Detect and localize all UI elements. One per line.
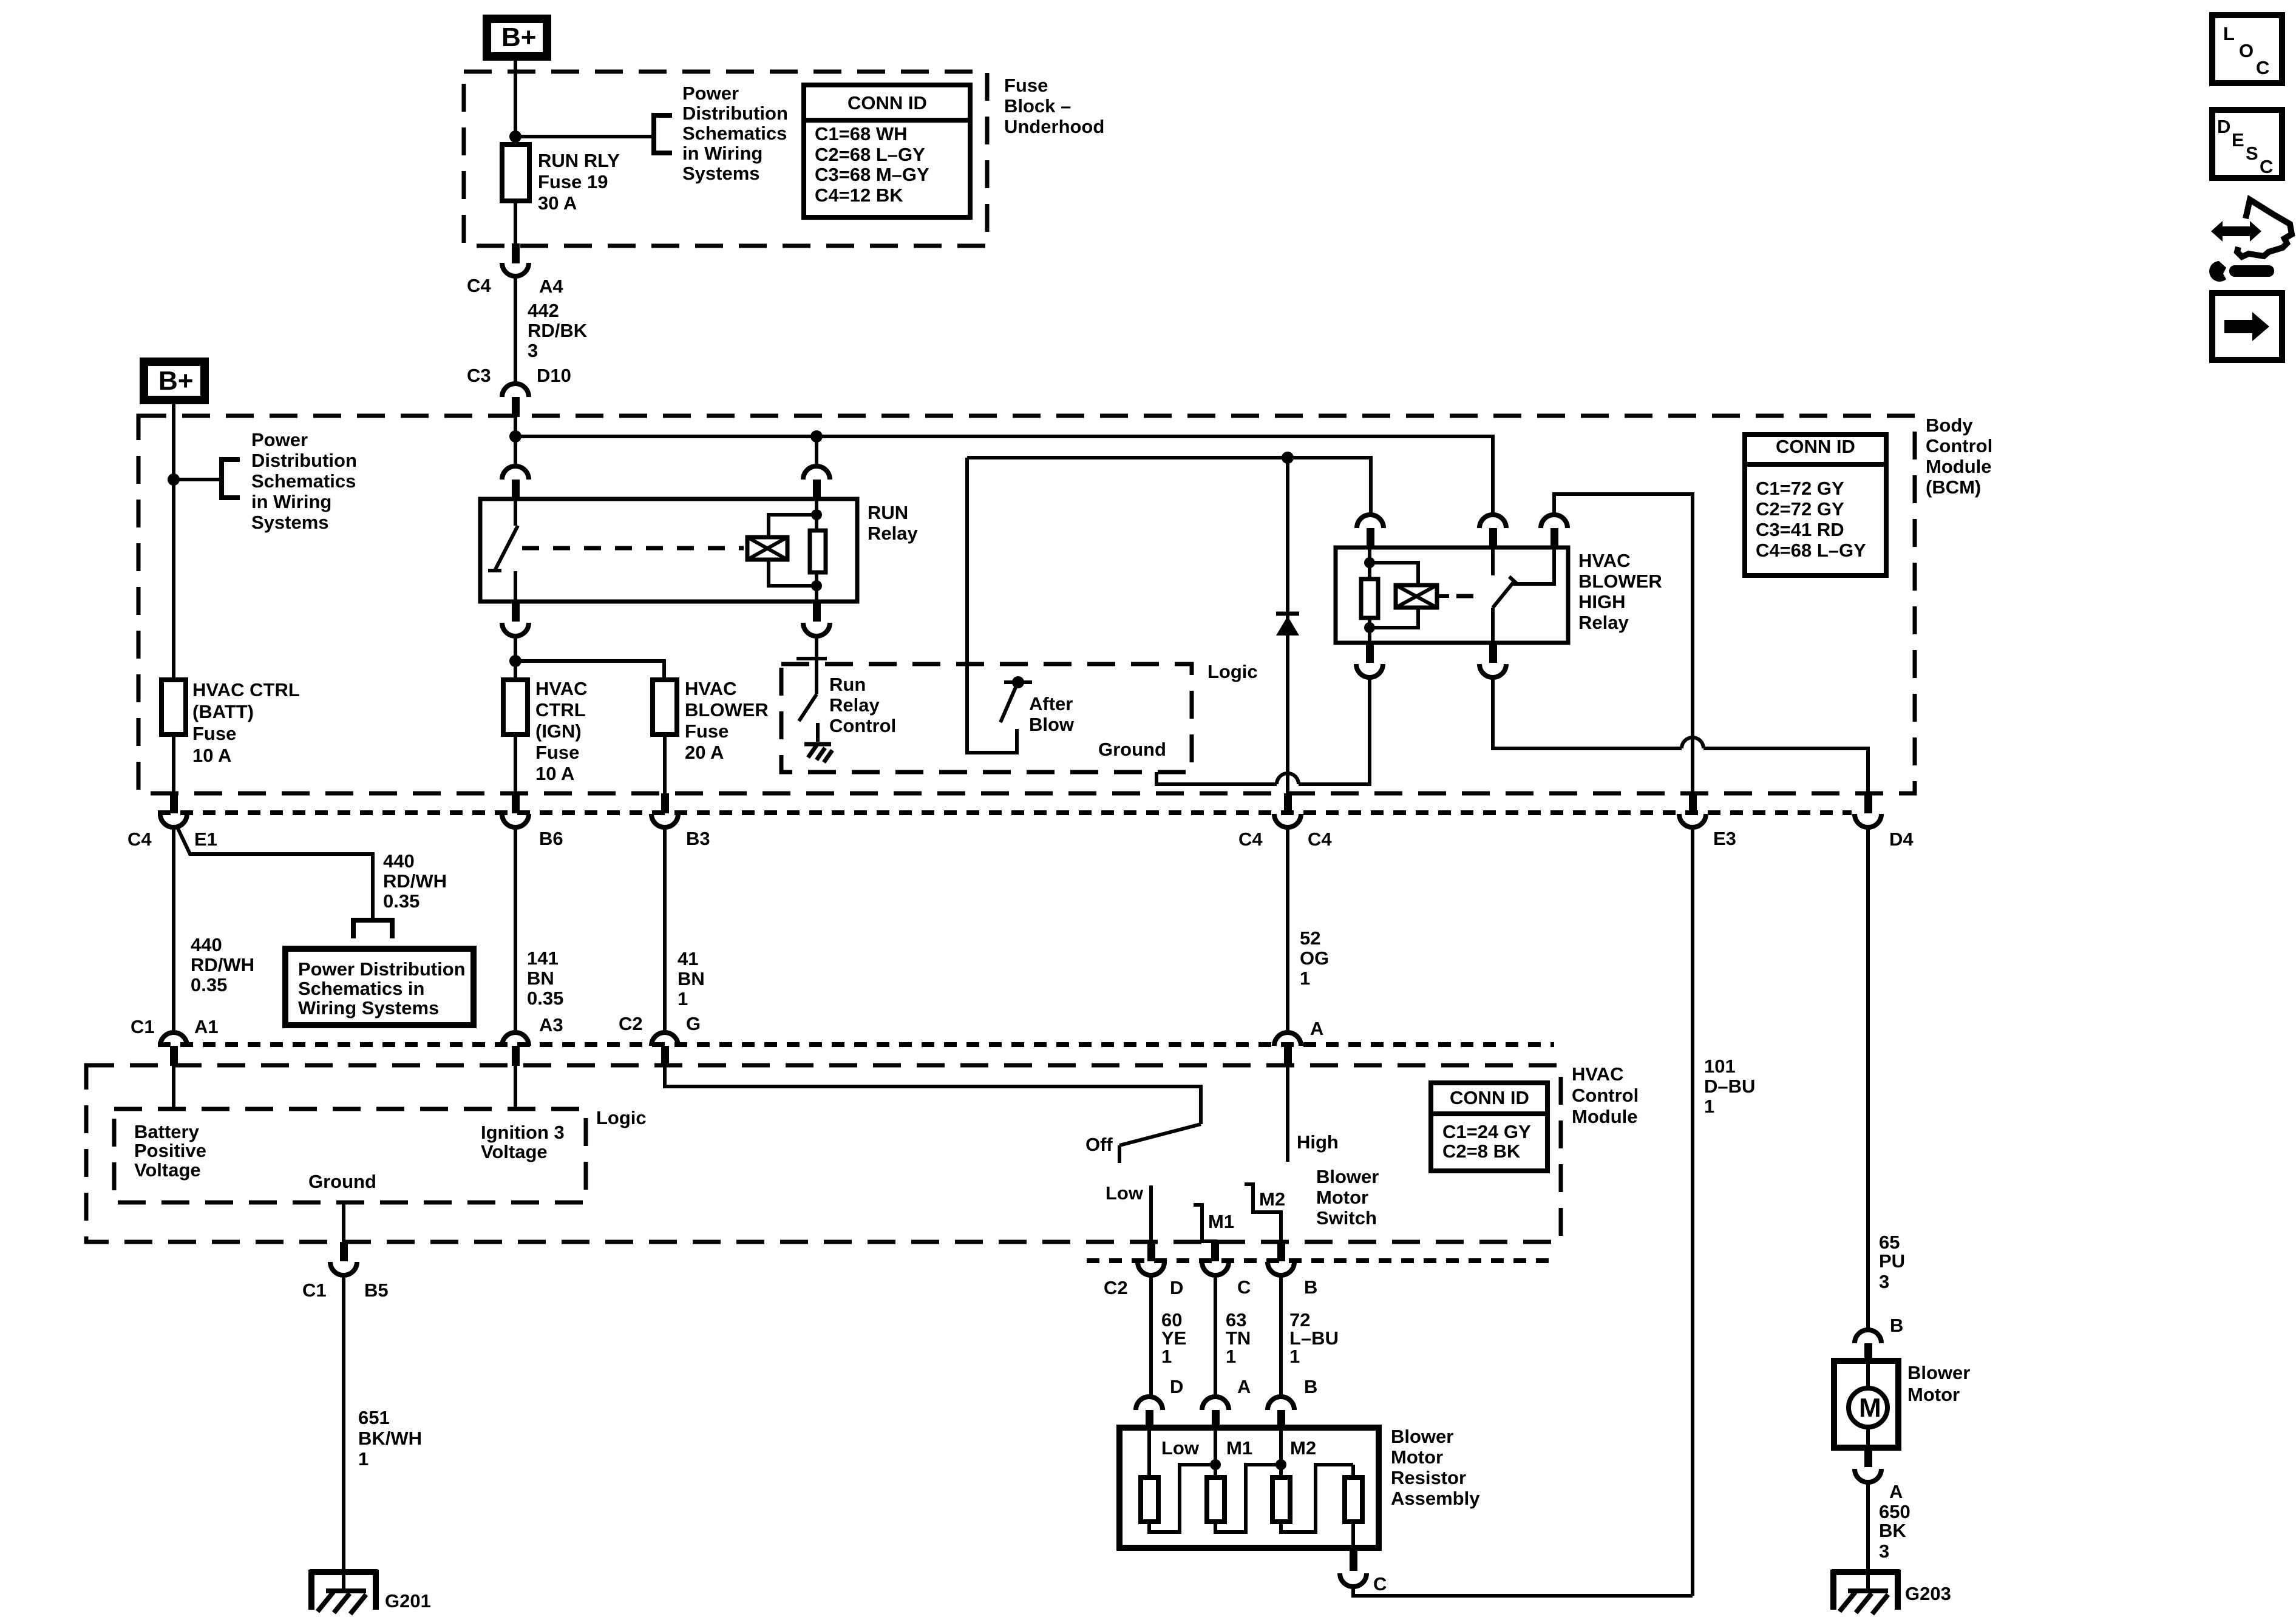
svg-text:Ignition 3: Ignition 3 [481,1122,565,1143]
blower motor M1 [1834,1361,1898,1448]
resistor R1 low [1141,1428,1215,1532]
svg-text:in Wiring: in Wiring [682,143,763,164]
svg-text:Power Distribution: Power Distribution [298,958,466,980]
svg-text:Voltage: Voltage [134,1159,201,1181]
wire coil bus [967,458,1371,515]
connector C2/D [1138,1242,1164,1275]
svg-text:Switch: Switch [1316,1207,1377,1229]
connector B resistor assembly [1268,1397,1294,1429]
svg-text:1: 1 [1300,968,1310,989]
connector HVAC blower high relay common output [1479,643,1506,677]
connector HVAC blower high relay coil input [1357,515,1384,548]
svg-text:Fuse: Fuse [192,723,236,744]
node diode junction [1282,452,1294,464]
connector B blower motor [1855,1330,1881,1363]
svg-text:C1: C1 [302,1280,327,1301]
svg-text:C2: C2 [619,1013,643,1034]
svg-text:Assembly: Assembly [1391,1488,1480,1509]
ground G203 [1832,1570,1900,1614]
svg-text:B: B [1890,1315,1903,1336]
run relay control switch [796,659,827,742]
connector run relay switch input [502,466,529,500]
svg-text:C1=24 GY: C1=24 GY [1442,1121,1531,1142]
svg-text:Underhood: Underhood [1004,116,1104,137]
svg-text:Voltage: Voltage [481,1141,548,1162]
svg-text:HVAC CTRL: HVAC CTRL [192,679,300,700]
svg-text:Schematics: Schematics [251,470,356,492]
svg-text:M2: M2 [1259,1188,1285,1210]
svg-text:Fuse: Fuse [685,720,729,742]
svg-text:in Wiring: in Wiring [251,491,331,512]
after blow switch [1000,676,1032,722]
svg-text:C4: C4 [127,829,152,850]
svg-text:Control: Control [1572,1085,1639,1106]
svg-text:Motor: Motor [1907,1384,1960,1405]
connector HVAC blower high relay coil output [1356,643,1383,677]
BCM logic dashed box [781,664,1192,772]
svg-text:Run: Run [829,674,866,695]
svg-text:B: B [1304,1276,1317,1298]
connector D resistor assembly [1136,1397,1163,1429]
wire run relay control [815,636,818,694]
svg-text:Body: Body [1926,415,1973,436]
wire 60 YE [1149,1275,1153,1398]
svg-text:C1=72 GY: C1=72 GY [1756,478,1844,499]
wire to power distribution reference bracket [515,135,654,138]
svg-text:Distribution: Distribution [682,103,788,124]
svg-text:BK/WH: BK/WH [358,1428,422,1449]
svg-text:65: 65 [1879,1232,1900,1253]
fuse HVAC CTRL (IGN) 10A [503,680,528,793]
wire 650 BK [1866,1481,1870,1592]
svg-text:Module: Module [1572,1106,1638,1127]
svg-text:Fuse 19: Fuse 19 [538,171,608,192]
wire 101 D-BU [1691,827,1694,1596]
svg-text:B+: B+ [158,366,193,396]
svg-text:C: C [1373,1573,1387,1595]
svg-text:A: A [1237,1376,1251,1397]
wire down to run relay coil connector [815,436,818,466]
svg-text:D: D [2217,116,2230,137]
connector C4/C4 [1274,793,1301,827]
svg-text:A4: A4 [539,276,563,297]
svg-text:650: 650 [1879,1501,1911,1522]
svg-text:442: 442 [528,300,559,321]
connector B3 [651,793,678,827]
svg-text:S: S [2246,143,2258,164]
svg-text:C4: C4 [1308,829,1332,850]
svg-text:D–BU: D–BU [1704,1076,1755,1097]
svg-text:OG: OG [1300,947,1329,969]
svg-text:B: B [1304,1376,1317,1397]
svg-text:Schematics in: Schematics in [298,978,424,999]
low lead [1149,1185,1153,1242]
svg-text:Distribution: Distribution [251,450,357,471]
svg-text:Schematics: Schematics [682,123,787,144]
connector HVAC blower high relay NO output [1541,515,1567,548]
svg-text:Low: Low [1106,1182,1144,1204]
svg-text:E1: E1 [194,829,217,850]
svg-text:HVAC: HVAC [1578,550,1631,571]
wire relay common to D4 [1493,677,1868,793]
svg-text:101: 101 [1704,1056,1736,1077]
svg-text:High: High [1297,1131,1339,1153]
svg-text:BN: BN [527,968,554,989]
svg-text:C2: C2 [1104,1277,1128,1298]
svg-text:C3=68 M–GY: C3=68 M–GY [815,164,929,185]
svg-text:L: L [2223,23,2235,44]
svg-text:(BCM): (BCM) [1926,476,1981,498]
svg-text:C: C [2256,57,2269,78]
svg-text:30 A: 30 A [538,192,577,214]
CONN ID table (fuse block) [804,85,970,217]
svg-text:M: M [1859,1393,1881,1423]
svg-text:After: After [1029,693,1073,714]
svg-text:651: 651 [358,1407,390,1428]
svg-text:RD/BK: RD/BK [528,320,588,341]
wire off feed inside module [665,1065,1201,1124]
svg-text:HVAC: HVAC [685,678,737,699]
svg-text:B+: B+ [501,22,536,52]
svg-text:Fuse: Fuse [535,742,579,763]
M2 lead [1245,1184,1281,1242]
svg-text:41: 41 [678,948,698,969]
svg-text:E3: E3 [1713,828,1736,849]
logic dashed box HVAC control module [114,1109,586,1202]
wire ground from module [342,1202,345,1242]
wire run relay output to fuses [509,636,664,680]
svg-text:RD/WH: RD/WH [383,870,447,892]
fuse F19 RUN RLY 30A [502,144,529,246]
Body Control Module dashed box [138,416,1915,793]
wire 141 BN ignition feed [514,827,517,1032]
svg-text:3: 3 [528,340,538,361]
off switch blade [1119,1124,1201,1163]
svg-text:RD/WH: RD/WH [191,954,254,975]
svg-text:1: 1 [1289,1346,1300,1367]
connector C3/D10 BCM input [502,384,529,417]
wire 52 OG high feed [1286,827,1289,1032]
svg-text:Off: Off [1085,1134,1113,1155]
svg-text:Resistor: Resistor [1391,1467,1466,1488]
ground rake run relay control [804,744,832,762]
node BCM feed split [509,430,521,442]
connector A [1274,1032,1301,1066]
diode D1 [1276,458,1299,793]
wire relay NO to E3 [1554,494,1693,793]
connector run relay coil output [803,602,830,636]
wire 72 L-BU [1279,1275,1283,1398]
node on BCM B+ feed [168,473,180,486]
connector HVAC blower high relay switch input [1479,515,1506,548]
HVAC control module dashed box [86,1065,1561,1242]
svg-text:B5: B5 [364,1280,389,1301]
svg-text:C4=12 BK: C4=12 BK [815,185,903,206]
connector A3 [502,1032,529,1066]
svg-text:D10: D10 [537,365,571,386]
svg-text:141: 141 [527,947,559,969]
HVAC blower high relay switch [1493,547,1554,643]
svg-text:D: D [1170,1376,1183,1397]
svg-text:Logic: Logic [1207,661,1258,682]
connector run relay switch output [502,602,529,636]
svg-text:Blow: Blow [1029,714,1075,735]
svg-text:C1: C1 [131,1016,155,1037]
svg-text:0.35: 0.35 [527,988,563,1009]
wire 63 TN [1214,1275,1217,1398]
svg-text:1: 1 [1704,1096,1714,1117]
resistor R2 M1 [1207,1428,1281,1532]
B+ terminal (fuse block feed) [483,15,551,61]
svg-text:1: 1 [678,988,688,1009]
connector B6 [502,793,529,827]
svg-text:PU: PU [1879,1250,1905,1272]
boxed label Power Distribution Schematics in Wiring Systems [285,949,474,1025]
wire 65 PU blower feed [1866,827,1870,1330]
svg-text:RUN RLY: RUN RLY [538,150,620,171]
svg-text:D: D [1170,1277,1183,1298]
wire 440 RD/WH E1 branch [178,829,373,918]
svg-text:G: G [686,1013,701,1034]
svg-text:CONN ID: CONN ID [1450,1087,1529,1108]
wire 440 RD/WH battery feed [172,827,175,1032]
svg-text:10 A: 10 A [192,745,231,766]
connector C resistor output [1340,1548,1367,1587]
svg-text:Power: Power [682,83,739,104]
connector C4/E1 [160,793,187,827]
connector row HVAC control module dotted line [158,1042,1554,1047]
svg-text:440: 440 [191,934,222,955]
svg-text:C4: C4 [467,275,491,296]
svg-text:Ground: Ground [1098,739,1166,760]
svg-text:C4=68 L–GY: C4=68 L–GY [1756,540,1866,561]
svg-text:C2=72 GY: C2=72 GY [1756,498,1844,520]
svg-text:B3: B3 [686,828,710,849]
svg-text:A: A [1889,1481,1903,1502]
svg-text:Wiring Systems: Wiring Systems [298,997,439,1019]
connector A resistor assembly [1202,1397,1229,1429]
svg-text:3: 3 [1879,1271,1889,1292]
connector E3 [1679,793,1706,827]
svg-text:(IGN): (IGN) [535,720,582,742]
svg-text:B6: B6 [539,828,563,849]
svg-text:C: C [1237,1276,1251,1298]
wire B+ to RUN RLY fuse [514,61,517,144]
connector C1/A1 [160,1032,187,1066]
svg-text:HVAC: HVAC [1572,1063,1624,1085]
svg-text:Systems: Systems [251,512,329,533]
wire 442 RD/BK [514,276,517,384]
ground G201 [310,1570,378,1614]
svg-text:Motor: Motor [1391,1446,1443,1468]
CONN ID table (BCM) [1745,435,1886,575]
relay K1 RUN Relay box [480,499,857,602]
svg-text:C: C [2260,156,2273,177]
icon DESC box [2212,110,2282,178]
run relay switch contact [488,499,518,602]
svg-text:Power: Power [251,429,308,450]
wire battery positive into module [172,1065,175,1109]
svg-text:440: 440 [383,850,415,872]
connector C1/B5 [330,1242,357,1275]
svg-text:M2: M2 [1290,1437,1316,1459]
icon diagnostic arrows and wrench [2209,200,2292,282]
svg-text:Relay: Relay [868,523,918,544]
wire high lead [1286,1065,1289,1162]
svg-text:C3=41 RD: C3=41 RD [1756,519,1844,540]
connector row BCM outputs dotted line [158,810,1852,815]
svg-text:O: O [2239,40,2254,61]
svg-text:Blower: Blower [1391,1426,1453,1447]
svg-text:Motor: Motor [1316,1187,1368,1208]
run relay coil [747,499,826,602]
connector C2/G [651,1032,678,1066]
svg-text:M1: M1 [1208,1211,1234,1232]
node run relay coil feed [810,430,823,442]
svg-text:G203: G203 [1905,1583,1951,1604]
svg-text:A: A [1310,1018,1323,1039]
svg-text:Relay: Relay [829,694,880,716]
svg-text:HVAC: HVAC [535,678,588,699]
svg-text:CONN ID: CONN ID [847,92,927,114]
fuse HVAC BLOWER 20A [653,680,677,793]
svg-text:C2=8 BK: C2=8 BK [1442,1141,1521,1162]
bracket power distribution reference (BCM) [222,459,240,498]
svg-text:A1: A1 [194,1016,219,1037]
svg-text:0.35: 0.35 [191,974,227,995]
svg-text:1: 1 [1226,1346,1236,1367]
resistor R4 output [1345,1465,1362,1548]
wire resistor C to E3 column [1353,1587,1693,1596]
svg-text:Control: Control [829,715,896,736]
wire BCM feed bus to HVAC blower high relay [515,436,1493,515]
svg-text:C1=68 WH: C1=68 WH [815,123,907,144]
svg-text:BLOWER: BLOWER [685,699,769,720]
connector B [1268,1242,1294,1275]
M1 lead [1194,1205,1215,1242]
wire 41 BN off feed [663,827,667,1032]
svg-text:Module: Module [1926,456,1992,477]
fuse block underhood dashed box [464,72,987,246]
wire after blow feed [967,458,1017,753]
svg-text:HIGH: HIGH [1578,591,1626,612]
wire D10 into BCM [514,416,517,466]
svg-text:Relay: Relay [1578,612,1629,633]
wire ignition 3 into module [514,1065,517,1109]
svg-text:G201: G201 [385,1590,431,1612]
connector row blower switch outputs dotted line [1087,1258,1557,1263]
svg-text:3: 3 [1879,1541,1889,1562]
svg-text:20 A: 20 A [685,742,724,763]
svg-text:Ground: Ground [308,1171,376,1192]
svg-text:Systems: Systems [682,163,760,184]
B+ terminal (BCM feed) [140,358,209,404]
bracket to power distribution box [353,920,392,938]
svg-text:Battery: Battery [134,1121,200,1142]
icon LOC box [2212,15,2282,83]
resistor R3 M2 [1272,1428,1353,1532]
svg-text:0.35: 0.35 [383,890,419,912]
svg-text:Logic: Logic [596,1107,647,1128]
svg-text:RUN: RUN [868,502,908,523]
svg-text:CONN ID: CONN ID [1776,436,1855,457]
icon forward arrow box [2212,293,2282,360]
svg-text:Blower: Blower [1907,1362,1970,1383]
svg-text:D4: D4 [1889,829,1914,850]
svg-text:A3: A3 [539,1014,563,1036]
connector C [1202,1242,1229,1275]
HVAC blower high relay coil [1361,547,1437,643]
svg-text:Control: Control [1926,435,1992,456]
svg-text:C2=68 L–GY: C2=68 L–GY [815,144,925,165]
svg-text:CTRL: CTRL [535,699,586,720]
wire to power distribution bracket (BCM) [174,478,222,481]
svg-text:C3: C3 [467,365,491,386]
svg-text:1: 1 [358,1448,369,1470]
CONN ID table (HVAC control module) [1431,1083,1547,1171]
svg-text:Positive: Positive [134,1140,206,1161]
svg-text:52: 52 [1300,927,1320,949]
connector D4 [1855,793,1881,827]
run relay actuation dashed link [522,546,744,551]
node on B+ feed [509,131,521,143]
svg-text:M1: M1 [1226,1437,1252,1459]
connector C4/A4 fuse block output [502,243,529,276]
wire 651 BK/WH [342,1275,345,1592]
ground link from logic box [1156,677,1370,784]
fuse HVAC CTRL (BATT) 10A [161,680,186,793]
wire B+ to HVAC CTRL BATT fuse [172,404,175,680]
relay K2 HVAC BLOWER HIGH box [1336,547,1568,643]
svg-text:Blower: Blower [1316,1166,1379,1187]
svg-text:Low: Low [1161,1437,1200,1459]
svg-text:Fuse: Fuse [1004,75,1048,96]
svg-text:10 A: 10 A [535,763,574,784]
svg-text:BN: BN [678,968,705,989]
bracket power distribution reference [654,115,672,153]
connector A blower motor [1855,1448,1881,1482]
svg-text:C4: C4 [1238,829,1263,850]
connector run relay coil input [803,466,830,500]
svg-text:Block –: Block – [1004,95,1071,117]
svg-text:(BATT): (BATT) [192,701,254,722]
svg-text:BLOWER: BLOWER [1578,571,1662,592]
HVAC blower high relay actuation dashed link [1437,594,1486,598]
svg-text:1: 1 [1161,1346,1172,1367]
blower motor resistor assembly box [1119,1428,1379,1548]
svg-text:E: E [2232,129,2244,151]
svg-text:BK: BK [1879,1520,1906,1541]
